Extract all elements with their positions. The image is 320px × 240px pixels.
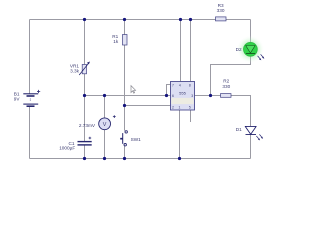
- switch SW1: [120, 131, 127, 146]
- junction dot top rail / pin 8: [189, 18, 192, 21]
- junction dot mid net / voltmeter: [103, 94, 106, 97]
- resistor R1: [123, 35, 128, 46]
- svg-text:D2: D2: [236, 47, 242, 52]
- VR1 arrow: [79, 62, 90, 76]
- wire C1 bottom to bottom rail: [84, 145, 86, 158]
- svg-text:SW1: SW1: [131, 137, 142, 142]
- voltmeter M1: [99, 118, 111, 130]
- wire voltmeter bottom: [104, 130, 106, 159]
- junction dot top rail / R1: [123, 18, 126, 21]
- svg-text:330: 330: [222, 84, 230, 89]
- LED D2 cathode bar: [246, 52, 255, 54]
- junction dot mid net / VR1-C1: [83, 94, 86, 97]
- svg-text:7: 7: [172, 84, 174, 88]
- svg-text:4: 4: [179, 84, 181, 88]
- resistor R2: [221, 94, 232, 98]
- svg-text:3: 3: [191, 94, 193, 98]
- wire mid net (VR1/C1 node to IC pins 6-7): [85, 95, 167, 97]
- junction dot bottom rail / SW1: [123, 157, 126, 160]
- wire VR1 bottom to C1 top: [84, 74, 86, 141]
- wire D2 anode from top rail: [250, 20, 252, 43]
- LED D2 glow halo: [236, 35, 264, 63]
- wire IC pin 5 stub: [190, 110, 192, 122]
- svg-text:1: 1: [179, 106, 181, 110]
- wire IC pin 3 output to junction and R2: [195, 95, 221, 97]
- junction dot top rail / VR1: [83, 18, 86, 21]
- LED D2 body (lit): [244, 42, 258, 56]
- LED D1: [245, 126, 256, 134]
- LED D2 triangle: [246, 46, 256, 54]
- svg-text:6: 6: [172, 94, 174, 98]
- svg-text:5: 5: [189, 106, 191, 110]
- junction dot bottom rail / voltmeter: [103, 157, 106, 160]
- wire R2 right to D1 top: [231, 96, 251, 127]
- battery B1 plus sign: [37, 90, 40, 93]
- junction dot top rail / pin 4: [179, 18, 182, 21]
- junction dot bottom rail / pin 1: [178, 157, 181, 160]
- junction dot mid net / pins 6-7 bracket: [165, 94, 168, 97]
- wire D2 cathode down-left to output junction: [211, 57, 251, 96]
- voltmeter plus sign: [113, 115, 116, 118]
- LED D1 emission arrows: [256, 134, 263, 140]
- wire R1 column (top rail through R1 down to pin2 node): [124, 20, 126, 131]
- IC U1 label band: [171, 98, 193, 104]
- svg-text:1000µF: 1000µF: [59, 145, 75, 150]
- wire left rail upper (battery + to top rail): [29, 20, 31, 94]
- junction dot output net / D2-R2: [209, 94, 212, 97]
- LED D1 cathode bar: [246, 134, 257, 136]
- junction dot bottom rail / C1: [83, 157, 86, 160]
- svg-text:3.3k: 3.3k: [70, 69, 80, 74]
- battery B1: [23, 94, 38, 106]
- wire IC pin 8 to top rail: [190, 20, 192, 82]
- wire SW1 bottom to bottom rail: [124, 146, 126, 159]
- svg-text:555: 555: [179, 91, 186, 96]
- capacitor C1 plus sign: [89, 137, 92, 140]
- wire left rail lower (battery - to bottom rail): [29, 106, 31, 158]
- wire bracket joining IC pins 7 and 6: [167, 85, 171, 96]
- svg-text:8: 8: [189, 84, 191, 88]
- mouse cursor: [131, 86, 136, 94]
- wire IC pin 1 to bottom rail: [179, 110, 181, 159]
- wire VR1 column top: [84, 20, 86, 65]
- wire pin2 net (R1/SW1 node to IC pin 2): [125, 105, 171, 107]
- svg-text:D1: D1: [236, 127, 242, 132]
- variable resistor VR1: [82, 65, 86, 74]
- svg-text:330: 330: [217, 8, 225, 13]
- svg-text:2: 2: [172, 106, 174, 110]
- IC U1 555 timer body: [171, 82, 195, 111]
- wire top rail: [30, 19, 251, 21]
- resistor R3: [216, 17, 227, 21]
- capacitor C1: [78, 142, 92, 145]
- svg-text:2.73mV: 2.73mV: [79, 123, 96, 128]
- svg-text:V: V: [103, 122, 107, 128]
- wire IC pin 4 to top rail: [180, 20, 182, 82]
- wire bottom rail: [30, 158, 251, 160]
- junction dot pin2 net / R1-SW1: [123, 104, 126, 107]
- wire D1 bottom to bottom rail: [250, 135, 252, 159]
- wire voltmeter top: [104, 96, 106, 119]
- LED D2 emission arrows: [258, 54, 265, 60]
- svg-text:9V: 9V: [14, 96, 21, 101]
- svg-text:1k: 1k: [113, 39, 119, 44]
